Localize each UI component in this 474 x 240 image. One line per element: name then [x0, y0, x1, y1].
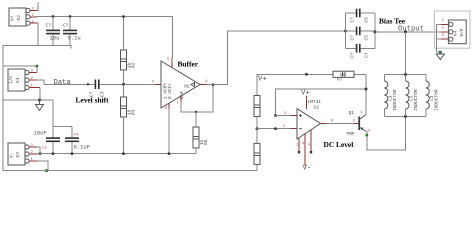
transistor Q1 — [347, 110, 371, 137]
svg-text:C?: C? — [349, 17, 355, 23]
svg-text:1: 1 — [163, 83, 166, 89]
junction — [52, 15, 55, 18]
pin stub K1.1 — [29, 87, 40, 89]
pin stub K2.1 — [30, 22, 37, 24]
wire divider mid to op-amp inverting input — [257, 128, 291, 130]
wire inductor top rail — [384, 74, 426, 76]
capacitor C5 — [346, 9, 376, 23]
svg-text:V+: V+ — [10, 15, 16, 21]
junction — [344, 30, 347, 33]
wire gnd drop — [52, 100, 54, 127]
svg-text:C?: C? — [349, 35, 355, 41]
wire cap top link — [53, 126, 72, 128]
inductor L3 — [426, 75, 440, 117]
svg-text:0.1uF: 0.1uF — [74, 144, 91, 151]
pin stub K4.3 — [441, 38, 449, 40]
svg-text:K4: K4 — [453, 30, 459, 36]
bias tee right rail — [374, 13, 376, 48]
junction — [404, 73, 407, 76]
wire Q1 emitter to inductor rail — [366, 116, 405, 150]
wire K3.1 to bottom rail — [37, 161, 48, 171]
wire V+ rail — [257, 74, 333, 95]
op-amp pin 5 stub — [310, 130, 312, 152]
node green gnd — [439, 51, 442, 54]
svg-text:INDUCTOR: INDUCTOR — [433, 89, 439, 111]
connector K3 — [8, 143, 29, 165]
wire buffer top to rail — [172, 17, 174, 59]
svg-text:PNP: PNP — [347, 131, 355, 137]
inductor L1 — [384, 75, 398, 117]
op-amp pin 7 V+ — [306, 96, 308, 109]
wire Data left — [44, 83, 95, 85]
buffer pin 5 top — [171, 58, 173, 68]
op-amp pin 2 — [291, 128, 298, 130]
svg-text:C2: C2 — [42, 147, 47, 151]
buffer pin 3 bottom — [168, 103, 170, 109]
wire to non-inverting input — [276, 115, 291, 117]
junction — [122, 83, 125, 86]
wire Output drop to inductors — [405, 32, 407, 75]
op-amp pin 6 output — [321, 123, 327, 125]
wire output to bias tee — [206, 31, 346, 85]
junction — [274, 114, 277, 117]
wire K4.3 to gnd — [437, 38, 442, 40]
svg-text:C?: C? — [63, 23, 69, 29]
pin stub K4.2 — [441, 31, 449, 33]
svg-text:C6: C6 — [364, 35, 370, 41]
svg-text:Bias Tee: Bias Tee — [379, 17, 406, 26]
junction — [168, 152, 171, 155]
wire bottom rail — [3, 170, 257, 172]
buffer pin 2 input — [155, 83, 161, 85]
connector K1 — [8, 69, 29, 91]
svg-text:BUF: BUF — [179, 91, 185, 99]
wire opamp out to Q1 base — [327, 123, 355, 125]
node green K1.3 corner — [36, 65, 39, 68]
svg-text:R3: R3 — [131, 109, 137, 115]
junction — [404, 30, 407, 33]
op-amp U2 LM741 — [297, 99, 321, 139]
buffer pin 4 output — [200, 84, 206, 86]
junction — [256, 127, 259, 130]
wire cap bottoms — [38, 45, 71, 48]
pin stub K2.2 — [30, 16, 37, 18]
svg-text:DC Level: DC Level — [324, 140, 354, 149]
wire ground rail mid — [37, 153, 196, 155]
svg-text:K1: K1 — [15, 77, 21, 83]
pin stub K1.2 — [29, 79, 37, 81]
junction — [404, 115, 407, 118]
junction — [87, 83, 89, 85]
svg-text:OU: OU — [184, 84, 190, 90]
svg-text:10uF: 10uF — [34, 130, 47, 137]
junction — [71, 152, 74, 155]
pin numbers K1 — [31, 70, 34, 89]
svg-text:I/P: I/P — [9, 76, 15, 84]
svg-text:Data: Data — [54, 79, 72, 87]
op-amp pin 4 stub — [298, 138, 300, 152]
capacitor C? 0.1u — [63, 17, 81, 46]
svg-text:INDUCTOR: INDUCTOR — [392, 89, 398, 111]
resistor R4 divider top — [254, 96, 260, 129]
capacitor C6 — [346, 27, 376, 41]
junction — [122, 15, 125, 18]
ground — [36, 100, 44, 111]
bias tee left rail — [345, 13, 347, 48]
connector K4 — [448, 20, 466, 44]
wire K3.3 jog to rail — [37, 147, 40, 154]
capacitor C7 — [346, 44, 376, 58]
outer box — [434, 11, 470, 48]
svg-text:R2: R2 — [131, 62, 137, 68]
svg-text:U2: U2 — [314, 105, 320, 111]
junction — [195, 111, 197, 113]
svg-text:C?: C? — [46, 23, 52, 29]
svg-text:V-: V- — [9, 153, 15, 158]
capacitor C2 10uF — [34, 127, 61, 154]
buffer pin 1 bottom — [180, 96, 182, 102]
svg-text:O/P: O/P — [459, 28, 465, 36]
resistor R5 divider bottom — [254, 129, 260, 171]
ground K4 — [436, 52, 444, 60]
junction — [69, 15, 72, 18]
svg-text:Level shift: Level shift — [76, 96, 110, 105]
resistor R2 — [121, 17, 137, 85]
svg-text:8 VCC+: 8 VCC+ — [167, 82, 173, 99]
pin stub K4.1 — [441, 23, 449, 25]
wire K1.2 to Data — [37, 80, 44, 84]
wire feedback top — [276, 89, 366, 116]
capacitor C4 0.1uF — [65, 127, 90, 154]
wire pin3 to gnd rail — [168, 109, 170, 154]
capacitor C3 level shift — [89, 80, 106, 98]
pin stub K3.2 — [29, 153, 37, 155]
svg-text:V-: V- — [303, 165, 312, 173]
node green bottom — [45, 169, 48, 172]
wire K1.1 down to gnd wire — [39, 88, 42, 101]
buffer U1 triangle — [161, 61, 200, 108]
junction — [212, 83, 215, 86]
pin stub K3.1 — [29, 160, 37, 162]
inductor L2 — [406, 75, 420, 117]
svg-text:LM741: LM741 — [308, 99, 322, 105]
pin stub K3.3 — [29, 146, 37, 148]
resistor R3 — [121, 84, 137, 153]
svg-text:Q1: Q1 — [349, 110, 355, 116]
junction — [52, 152, 55, 155]
junction — [374, 30, 377, 33]
svg-text:Buffer: Buffer — [178, 60, 199, 69]
wire Data right — [99, 83, 155, 85]
svg-text:C?: C? — [349, 52, 355, 58]
capacitor C? 10u — [46, 17, 61, 46]
svg-text:V+: V+ — [258, 76, 267, 84]
svg-text:C7: C7 — [364, 52, 370, 58]
wire K2.1 to left rail — [3, 23, 38, 45]
svg-text:R7: R7 — [337, 77, 343, 83]
wire K4.1 to gnd — [437, 24, 442, 52]
op-amp pin 3 — [291, 115, 298, 117]
pin numbers K2 — [32, 8, 35, 25]
svg-text:0.1u: 0.1u — [68, 35, 81, 42]
pin stub K1.3 — [29, 72, 37, 74]
wire K1.3 to left rail — [3, 66, 37, 73]
svg-text:INDUCTOR: INDUCTOR — [413, 89, 419, 111]
node green emitter — [366, 134, 369, 137]
svg-text:V+: V+ — [301, 90, 310, 98]
wire left rail — [2, 45, 4, 170]
junction — [122, 152, 125, 155]
pin stub K2.3 — [30, 10, 37, 12]
svg-text:10u: 10u — [50, 35, 60, 42]
junction — [39, 152, 42, 155]
junction — [38, 99, 41, 102]
wire Q1 collector up — [354, 74, 366, 114]
wire inductor bottom rail — [384, 115, 426, 117]
wire K2.3 up — [37, 2, 40, 11]
svg-text:R6: R6 — [203, 139, 209, 145]
wire Output — [375, 31, 441, 33]
pin numbers K4 — [442, 19, 445, 38]
op-amp pin V- down — [304, 134, 306, 166]
svg-text:K3: K3 — [15, 152, 21, 158]
svg-text:C4: C4 — [74, 134, 79, 138]
resistor R7 — [333, 71, 354, 82]
connector K2 — [9, 8, 30, 26]
junction — [305, 73, 308, 76]
wire VCC rail K2.2 to buffer top — [37, 16, 173, 18]
wire gnd horizontal — [3, 99, 53, 101]
pin numbers K3 — [31, 144, 34, 162]
wire pin1 loop to output — [181, 85, 213, 112]
svg-text:C5: C5 — [364, 17, 370, 23]
junction — [274, 127, 277, 130]
svg-text:K2: K2 — [16, 15, 22, 21]
junction — [365, 88, 368, 91]
resistor R6 — [193, 112, 209, 154]
